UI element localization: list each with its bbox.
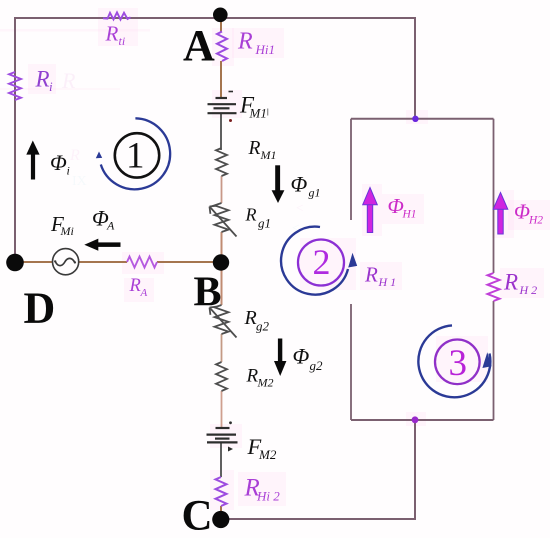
wire bottom with riser (221, 420, 415, 519)
resistor RH2 (488, 273, 500, 301)
wire inner right lower (493, 301, 495, 420)
loop 1 arc arrow (101, 118, 170, 189)
resistor RHi2 (216, 477, 227, 506)
svg-text:ti: ti (119, 34, 126, 48)
wire RHi2 to C (220, 506, 222, 519)
wire inner top (351, 118, 494, 120)
resistor Rg2 variable (215, 305, 229, 334)
svg-text:<: < (296, 200, 303, 215)
svg-text:H 2: H 2 (519, 283, 538, 297)
svg-text:R: R (129, 276, 141, 296)
svg-text:g2: g2 (310, 358, 324, 373)
flux arrow Phi_H2 (493, 193, 508, 235)
svg-text:Hi 2: Hi 2 (256, 489, 280, 504)
wire inner left upper (350, 119, 352, 220)
svg-text:R: R (364, 263, 378, 287)
svg-text:R: R (244, 307, 257, 329)
svg-text:R: R (35, 67, 50, 92)
wire Rg1 to B (221, 232, 223, 262)
svg-text:Hi1: Hi1 (255, 42, 276, 57)
resistor Rti (103, 12, 131, 19)
wire B to Rg2 (221, 262, 223, 305)
flux arrow Phi_g2 (278, 339, 282, 362)
svg-text:IX: IX (72, 174, 87, 189)
source FMi (53, 249, 79, 275)
junction bottom right (412, 416, 419, 423)
resistor RM1 (216, 148, 227, 176)
svg-text:R: R (248, 138, 261, 159)
loop 2 arc arrow (281, 227, 348, 295)
svg-text:M2: M2 (258, 447, 277, 462)
resistor RA (127, 257, 157, 268)
wire inner bottom (351, 419, 494, 421)
wire Rg2 to RM2 (221, 334, 223, 362)
svg-text:Mi: Mi (60, 224, 74, 238)
wire inner left lower (350, 304, 352, 420)
node B (213, 254, 229, 270)
loop 3 arc arrow (418, 325, 490, 397)
svg-text:M1: M1 (260, 148, 277, 162)
svg-text:1: 1 (126, 136, 145, 177)
svg-text:A: A (106, 219, 115, 233)
flux arrow Phi_H1 (363, 188, 378, 233)
svg-text:Φ: Φ (388, 194, 404, 218)
loop 2 circle (298, 240, 344, 286)
svg-text:C: C (182, 493, 213, 538)
node A (213, 8, 228, 23)
junction top right (412, 116, 418, 122)
svg-text:g2: g2 (256, 319, 270, 334)
wire RM1 to Rg1 (221, 176, 223, 203)
svg-text:R: R (69, 147, 80, 164)
svg-text:g1: g1 (258, 216, 271, 231)
svg-text:M2: M2 (257, 376, 274, 390)
node D (6, 254, 24, 272)
svg-text:Φ: Φ (293, 344, 310, 369)
svg-text:2: 2 (313, 242, 331, 282)
svg-text:3: 3 (449, 343, 468, 384)
svg-text:R: R (237, 29, 253, 55)
svg-text:Φ: Φ (291, 172, 308, 197)
svg-text:A: A (183, 21, 215, 70)
svg-text:A: A (140, 287, 148, 299)
svg-text:M1: M1 (249, 106, 267, 121)
wire outer top and right drop (15, 18, 415, 263)
svg-text:i: i (67, 164, 70, 178)
svg-text:R: R (245, 205, 257, 225)
svg-text:H2: H2 (528, 215, 543, 227)
flux arrow Phi_g1 (275, 165, 280, 190)
wire FM2 to RHi2 (220, 442, 222, 477)
flux arrow Phi_i (31, 154, 35, 180)
resistor RM2 (216, 362, 227, 391)
battery FM2 (207, 428, 238, 442)
resistor Ri (9, 72, 21, 100)
wire D to B (15, 261, 53, 263)
svg-text:B: B (194, 270, 222, 316)
loop 1 circle (115, 133, 159, 177)
wire RHi1 to FM1 (220, 61, 222, 98)
node C (212, 511, 229, 528)
wire inner right upper (493, 119, 495, 273)
svg-text:Φ: Φ (50, 150, 67, 175)
resistor Rg1 variable (215, 203, 229, 232)
svg-text:R: R (61, 68, 76, 93)
svg-text:i: i (49, 79, 53, 94)
svg-text:Φ: Φ (514, 200, 530, 224)
resistor RHi1 (217, 32, 227, 62)
wire A to RHi1 (220, 15, 222, 32)
wire RM2 to FM2 (221, 391, 223, 428)
svg-text:R: R (105, 22, 119, 46)
svg-text:R: R (503, 270, 518, 295)
wire FM1 to RM1 (220, 113, 222, 150)
svg-text:g1: g1 (309, 186, 321, 200)
svg-text:H1: H1 (402, 209, 417, 221)
svg-text:D: D (24, 284, 56, 333)
flux arrow Phi_A (98, 242, 121, 247)
loop 3 circle (435, 340, 480, 385)
svg-text:H 1: H 1 (378, 275, 397, 289)
battery FM1 (208, 98, 237, 113)
